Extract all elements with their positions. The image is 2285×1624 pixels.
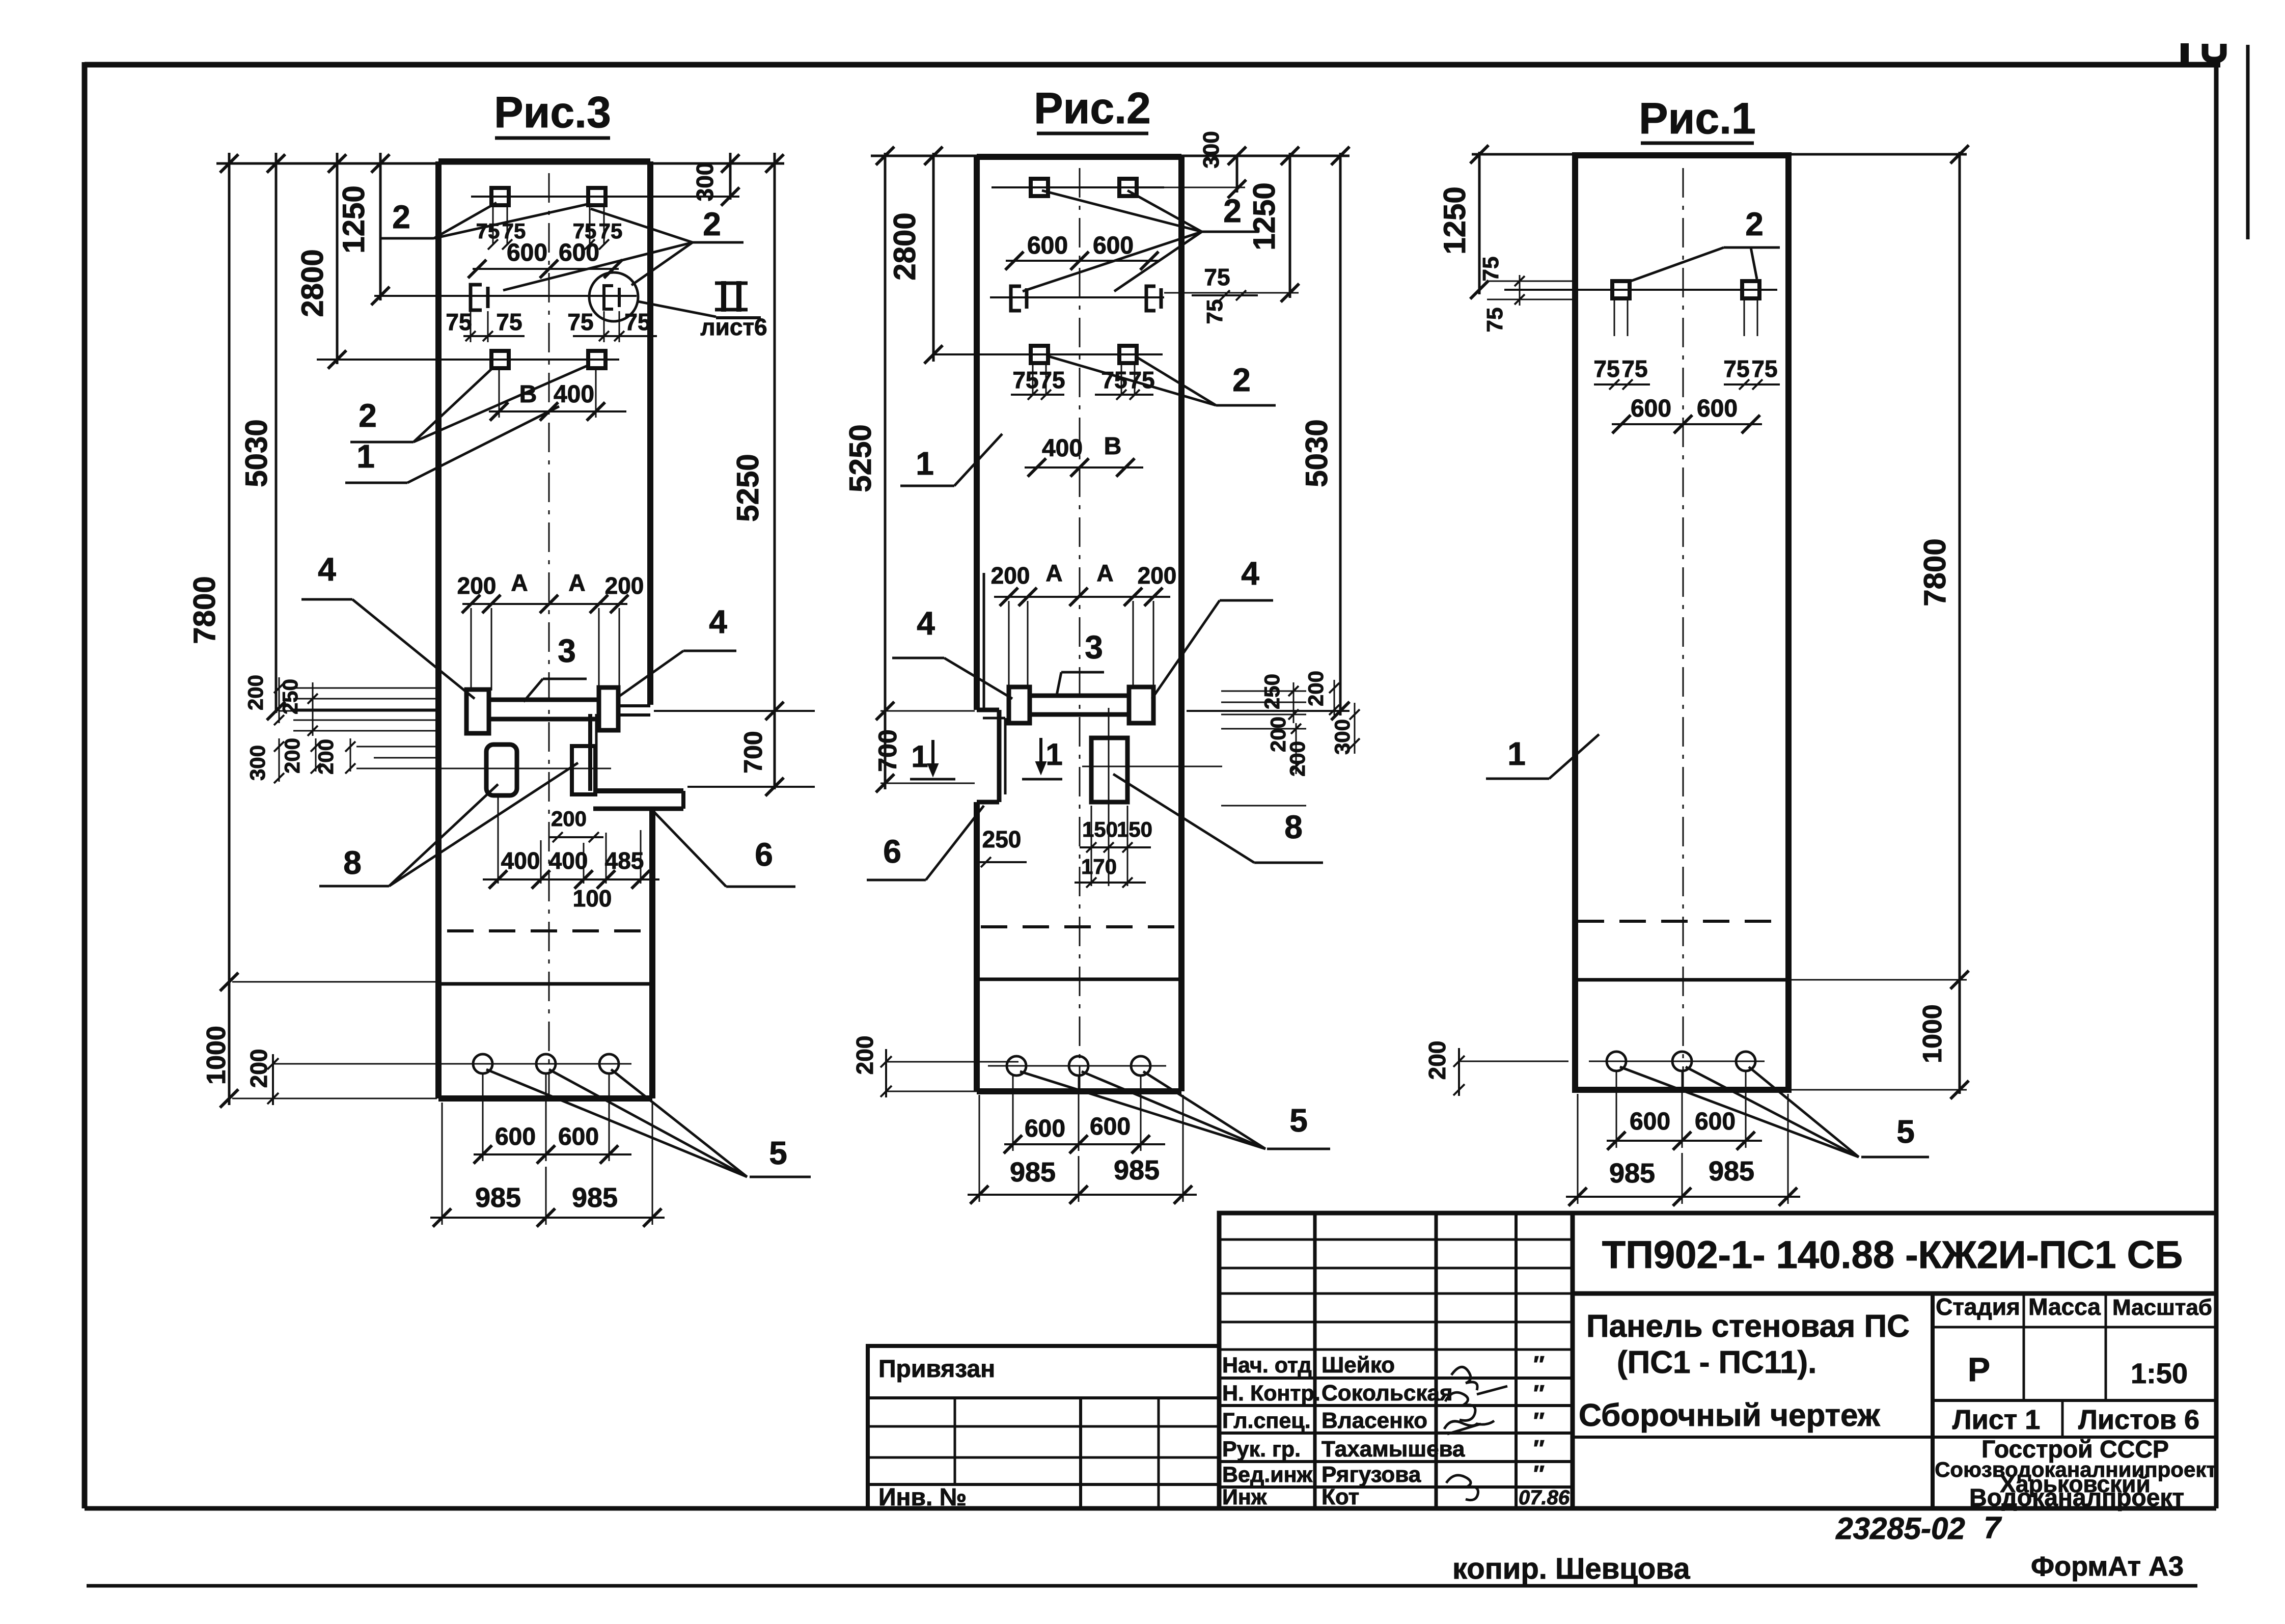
svg-text:Панель стеновая ПС: Панель стеновая ПС bbox=[1586, 1309, 1910, 1344]
svg-text:300: 300 bbox=[1199, 131, 1224, 168]
svg-text:300: 300 bbox=[245, 745, 269, 781]
fig2 crossbar left block bbox=[1009, 687, 1030, 723]
fig3 dim line 1250 bbox=[379, 153, 382, 300]
fig1 anchor row line bbox=[1504, 289, 1777, 291]
fig2 section mark 1 right bbox=[1039, 738, 1042, 762]
svg-text:600: 600 bbox=[1695, 1108, 1736, 1135]
fig1 dim line 1250 left bbox=[1478, 152, 1481, 294]
svg-text:2: 2 bbox=[1223, 192, 1242, 229]
svg-text:75: 75 bbox=[496, 309, 522, 335]
fig3 anchor row1 right loop bbox=[588, 188, 605, 205]
svg-text:Н. Контр.: Н. Контр. bbox=[1222, 1381, 1320, 1406]
fig2 dim line 1250 right bbox=[1289, 153, 1291, 298]
svg-text:6: 6 bbox=[883, 833, 901, 870]
fig3 bottom holes bbox=[473, 1054, 492, 1074]
fig3 crossbar bar bbox=[489, 698, 599, 702]
fig1 anchor stems bbox=[1614, 300, 1615, 336]
svg-text:985: 985 bbox=[475, 1182, 521, 1213]
svg-text:485: 485 bbox=[605, 847, 644, 874]
svg-text:7800: 7800 bbox=[1918, 538, 1952, 606]
fig2 row3 stems bbox=[1032, 364, 1034, 395]
svg-text:600: 600 bbox=[558, 1123, 599, 1150]
fig1 extension lines right bbox=[1791, 979, 1967, 981]
fig2 anchor row3 line bbox=[932, 353, 1163, 355]
svg-text:Привязан: Привязан bbox=[878, 1356, 995, 1383]
svg-text:5: 5 bbox=[1896, 1113, 1915, 1150]
svg-text:5250: 5250 bbox=[843, 424, 877, 492]
svg-text:Гл.спец.: Гл.спец. bbox=[1222, 1409, 1311, 1433]
svg-text:600: 600 bbox=[1027, 232, 1068, 259]
fig2 left notch bbox=[983, 573, 985, 710]
fig3 detail circle II bbox=[589, 272, 638, 321]
fig3 extension line crossbar bottom bbox=[654, 710, 815, 712]
svg-text:75: 75 bbox=[1012, 367, 1038, 393]
svg-text:75: 75 bbox=[1202, 299, 1227, 324]
svg-text:″: ″ bbox=[1533, 1351, 1545, 1378]
svg-text:Листов 6: Листов 6 bbox=[2078, 1405, 2199, 1435]
svg-text:1250: 1250 bbox=[337, 185, 371, 253]
svg-text:200: 200 bbox=[605, 572, 644, 599]
fig2 anchor row3 loops bbox=[1031, 346, 1048, 363]
svg-text:Инв. №: Инв. № bbox=[878, 1484, 967, 1511]
svg-text:4: 4 bbox=[917, 605, 935, 642]
svg-text:4: 4 bbox=[1241, 555, 1259, 592]
svg-text:400: 400 bbox=[554, 381, 594, 408]
svg-text:170: 170 bbox=[1081, 855, 1117, 878]
fig2 top dimension line bbox=[871, 155, 1350, 157]
svg-text:Стадия: Стадия bbox=[1936, 1293, 2020, 1320]
svg-text:Рис.1: Рис.1 bbox=[1639, 94, 1756, 143]
svg-text:Рягузова: Рягузова bbox=[1322, 1462, 1421, 1487]
svg-text:Сокольская: Сокольская bbox=[1322, 1381, 1453, 1406]
svg-text:Вед.инж: Вед.инж bbox=[1222, 1463, 1313, 1487]
svg-text:Тахамышева: Тахамышева bbox=[1322, 1437, 1465, 1462]
svg-text:75: 75 bbox=[476, 219, 500, 243]
fig2 section divider line bbox=[979, 978, 1181, 981]
fig3 anchor row3 right loop bbox=[588, 351, 605, 368]
fig3 dim line 5250 right bbox=[774, 153, 776, 789]
svg-text:Рис.3: Рис.3 bbox=[494, 88, 611, 137]
svg-text:В: В bbox=[1104, 433, 1122, 460]
svg-text:75: 75 bbox=[599, 219, 623, 243]
svg-text:150: 150 bbox=[1082, 817, 1118, 841]
svg-text:7: 7 bbox=[1984, 1510, 2002, 1545]
title block signatures bbox=[1451, 1367, 1477, 1390]
partial page number top right bbox=[2181, 43, 2189, 62]
fig3 anchor row2 line bbox=[374, 295, 637, 297]
svg-text:Рук. гр.: Рук. гр. bbox=[1222, 1437, 1301, 1462]
svg-text:1: 1 bbox=[1045, 737, 1062, 772]
fig3 dim line 5030 bbox=[275, 153, 278, 713]
fig3 dim line 2800 bbox=[336, 153, 339, 364]
svg-text:600: 600 bbox=[1697, 395, 1738, 422]
fig2 anchor row1 loops bbox=[1031, 179, 1048, 196]
fig1 top dimension line bbox=[1472, 153, 1967, 156]
svg-text:2: 2 bbox=[703, 206, 721, 242]
fig3 insert 8 right channel bbox=[572, 746, 595, 794]
svg-text:″: ″ bbox=[1533, 1408, 1545, 1434]
fig3 crossbar left block bbox=[466, 690, 489, 733]
svg-text:Сборочный чертеж: Сборочный чертеж bbox=[1579, 1398, 1881, 1433]
svg-text:2: 2 bbox=[1745, 206, 1764, 242]
svg-text:1000: 1000 bbox=[202, 1026, 231, 1085]
svg-text:1000: 1000 bbox=[1918, 1004, 1947, 1063]
svg-text:700: 700 bbox=[739, 731, 767, 773]
fig3 anchor row3 left loop bbox=[491, 351, 509, 368]
svg-text:600: 600 bbox=[1631, 395, 1671, 422]
fig1 section divider line bbox=[1577, 978, 1788, 982]
svg-text:А: А bbox=[1096, 560, 1113, 586]
svg-text:2: 2 bbox=[359, 397, 377, 434]
svg-text:200: 200 bbox=[991, 562, 1030, 589]
title block main staff table bbox=[1219, 1213, 1573, 1508]
fig2 crossbar right block bbox=[1129, 687, 1153, 723]
svg-text:200: 200 bbox=[1285, 741, 1309, 777]
svg-text:8: 8 bbox=[1284, 809, 1303, 845]
svg-text:100: 100 bbox=[573, 885, 612, 912]
fig2 centerline bbox=[1079, 168, 1081, 1090]
svg-text:2: 2 bbox=[392, 199, 410, 235]
svg-text:200: 200 bbox=[851, 1036, 878, 1075]
outer cut line top right bbox=[2246, 45, 2250, 239]
svg-text:1250: 1250 bbox=[1438, 186, 1472, 254]
fig3 left small dim ticks bbox=[279, 677, 280, 723]
fig3 top dimension line bbox=[216, 162, 784, 165]
fig3 dim 300 right bbox=[729, 153, 732, 200]
fig1 dim line 7800 right bbox=[1959, 152, 1961, 1094]
svg-text:75: 75 bbox=[567, 309, 593, 335]
svg-text:″: ″ bbox=[1533, 1461, 1545, 1487]
svg-text:Кот: Кот bbox=[1322, 1484, 1359, 1509]
fig2 dim line 5250 left bbox=[884, 153, 887, 789]
fig3 corbel bbox=[593, 788, 683, 793]
svg-text:1: 1 bbox=[911, 739, 928, 774]
svg-text:7800: 7800 bbox=[187, 576, 222, 644]
svg-text:Масса: Масса bbox=[2028, 1293, 2101, 1320]
svg-text:75: 75 bbox=[1621, 355, 1647, 382]
svg-text:400: 400 bbox=[549, 847, 588, 874]
fig2 dim line 2800 left bbox=[932, 153, 935, 362]
fig3 extension line corbel bottom bbox=[687, 786, 815, 788]
svg-text:985: 985 bbox=[1010, 1157, 1056, 1188]
fig2 insert 8 bbox=[1091, 738, 1127, 802]
fig3 panel right recess edge bbox=[588, 714, 592, 791]
svg-text:07.86: 07.86 bbox=[1519, 1487, 1570, 1509]
fig3 bottom extension lines bbox=[232, 981, 437, 983]
fig3 centerline bbox=[548, 173, 550, 1095]
fig2 right small dim ticks bbox=[1293, 682, 1295, 723]
svg-text:985: 985 bbox=[1609, 1158, 1655, 1189]
svg-text:2: 2 bbox=[1232, 362, 1251, 398]
svg-text:3: 3 bbox=[1085, 629, 1103, 666]
svg-text:6: 6 bbox=[755, 836, 773, 873]
svg-text:Нач. отд: Нач. отд bbox=[1222, 1353, 1312, 1378]
fig3 crossbar right block bbox=[599, 687, 618, 730]
svg-text:150: 150 bbox=[1117, 817, 1152, 841]
svg-text:600: 600 bbox=[1093, 232, 1134, 259]
fig3 section divider line bbox=[441, 982, 652, 986]
svg-text:75: 75 bbox=[1204, 264, 1230, 290]
svg-text:ТП902-1- 140.88 -КЖ2И-ПС1 СБ: ТП902-1- 140.88 -КЖ2И-ПС1 СБ bbox=[1602, 1233, 2183, 1277]
svg-text:200: 200 bbox=[1304, 671, 1328, 706]
fig3 anchor row2 right channel bbox=[604, 286, 613, 309]
fig2 anchor row1 line bbox=[992, 186, 1164, 188]
svg-text:5030: 5030 bbox=[1300, 419, 1334, 487]
fig2 hidden dashed line bbox=[981, 925, 1179, 928]
svg-text:Р: Р bbox=[1968, 1351, 1990, 1388]
svg-text:5250: 5250 bbox=[731, 454, 765, 521]
fig2 right small dim lines bbox=[1221, 691, 1306, 692]
svg-text:300: 300 bbox=[692, 162, 718, 202]
sheet border frame bbox=[85, 62, 2220, 68]
svg-text:75: 75 bbox=[446, 309, 472, 335]
title block name cell bbox=[1931, 1293, 1935, 1508]
svg-text:5: 5 bbox=[769, 1135, 787, 1171]
fig2 panel outline bbox=[977, 154, 1181, 160]
svg-text:А: А bbox=[1045, 560, 1062, 586]
svg-text:1: 1 bbox=[356, 438, 375, 475]
svg-text:75: 75 bbox=[1723, 355, 1749, 382]
fig1 centerline bbox=[1683, 168, 1684, 1087]
svg-text:Лист 1: Лист 1 bbox=[1952, 1405, 2041, 1435]
svg-text:600: 600 bbox=[1025, 1115, 1065, 1142]
svg-text:200: 200 bbox=[457, 572, 497, 599]
svg-text:985: 985 bbox=[1709, 1156, 1754, 1187]
svg-text:1: 1 bbox=[1507, 735, 1526, 772]
fig1 anchor loops bbox=[1612, 281, 1630, 298]
svg-text:4: 4 bbox=[318, 551, 336, 588]
fig3 dim line 7800 bbox=[228, 153, 231, 1105]
svg-text:2800: 2800 bbox=[295, 249, 329, 317]
bottom copy line bbox=[87, 1584, 2197, 1588]
svg-text:75: 75 bbox=[1751, 355, 1777, 382]
svg-text:400: 400 bbox=[1042, 435, 1083, 462]
svg-text:75: 75 bbox=[1478, 257, 1503, 282]
svg-text:Инж: Инж bbox=[1222, 1485, 1267, 1509]
svg-text:200: 200 bbox=[243, 675, 267, 710]
svg-text:8: 8 bbox=[343, 844, 362, 881]
svg-text:Водоканалпроект: Водоканалпроект bbox=[1969, 1484, 2184, 1511]
svg-text:1:50: 1:50 bbox=[2131, 1357, 2188, 1389]
svg-text:600: 600 bbox=[1630, 1108, 1670, 1135]
svg-text:985: 985 bbox=[1114, 1155, 1160, 1186]
svg-text:75: 75 bbox=[624, 309, 650, 335]
svg-text:1250: 1250 bbox=[1247, 182, 1281, 250]
fig2 bottom holes bbox=[1007, 1056, 1026, 1076]
fig3 anchor row1 line bbox=[471, 196, 718, 198]
fig3 left small dim lines bbox=[293, 687, 437, 689]
svg-text:ФормАт А3: ФормАт А3 bbox=[2031, 1551, 2184, 1582]
fig1 panel outline bbox=[1575, 155, 1788, 1090]
svg-text:75: 75 bbox=[1039, 367, 1065, 393]
fig3 hidden dashed line bbox=[447, 929, 648, 932]
svg-text:4: 4 bbox=[709, 603, 727, 640]
fig3 section mark II bbox=[721, 281, 726, 312]
svg-text:копир. Шевцова: копир. Шевцова bbox=[1452, 1552, 1690, 1585]
svg-text:200: 200 bbox=[1138, 562, 1177, 589]
svg-text:2800: 2800 bbox=[888, 212, 922, 280]
fig3 anchor row3 line bbox=[317, 359, 619, 361]
svg-text:5030: 5030 bbox=[239, 419, 273, 487]
svg-text:200: 200 bbox=[551, 807, 587, 831]
fig3 anchor row1 left loop bbox=[491, 188, 509, 205]
fig3 insert 8 left bbox=[486, 745, 517, 795]
fig2 anchor row2 line bbox=[990, 296, 1164, 298]
fig2 anchor row2 channels bbox=[1011, 286, 1021, 311]
svg-text:″: ″ bbox=[1533, 1380, 1545, 1407]
fig3 horizontal line through inserts bbox=[356, 768, 611, 769]
svg-text:23285-02: 23285-02 bbox=[1835, 1511, 1965, 1546]
fig3 row1 anchor stems bbox=[492, 206, 494, 244]
title block stadia massa masshtab header bbox=[1933, 1292, 2216, 1295]
svg-text:Власенко: Власенко bbox=[1322, 1408, 1427, 1433]
svg-text:75: 75 bbox=[1593, 355, 1619, 382]
svg-text:Шейко: Шейко bbox=[1322, 1353, 1395, 1378]
svg-text:″: ″ bbox=[1533, 1435, 1545, 1462]
svg-text:А: А bbox=[568, 569, 585, 596]
fig3 crossbar stub bbox=[618, 704, 650, 707]
fig1 hidden dashed line bbox=[1578, 920, 1786, 923]
svg-text:600: 600 bbox=[507, 239, 547, 266]
fig2 dim 300 right bbox=[1236, 155, 1238, 192]
svg-text:А: А bbox=[511, 569, 528, 596]
svg-text:200: 200 bbox=[1424, 1041, 1450, 1080]
svg-text:600: 600 bbox=[559, 239, 599, 266]
svg-text:(ПС1 - ПС11).: (ПС1 - ПС11). bbox=[1617, 1345, 1816, 1380]
fig2 extension lines right bbox=[1164, 187, 1245, 188]
svg-text:Масштаб: Масштаб bbox=[2112, 1295, 2212, 1320]
svg-text:985: 985 bbox=[572, 1182, 618, 1213]
svg-text:250: 250 bbox=[982, 826, 1022, 852]
svg-text:75: 75 bbox=[1482, 308, 1507, 333]
svg-text:700: 700 bbox=[873, 729, 902, 772]
svg-text:3: 3 bbox=[558, 632, 576, 669]
fig3 anchor row2 left channel bbox=[471, 285, 482, 310]
svg-text:75: 75 bbox=[1101, 367, 1127, 393]
title block pr table bbox=[868, 1346, 1219, 1508]
fig2 dim line 5030 right bbox=[1339, 153, 1342, 715]
svg-text:лист6: лист6 bbox=[700, 314, 767, 340]
fig3 panel outline bbox=[435, 161, 442, 1098]
title block designation cell bbox=[1573, 1213, 2216, 1293]
svg-text:250: 250 bbox=[1260, 674, 1284, 709]
fig2 crossbar bar bbox=[1030, 694, 1129, 698]
svg-text:Рис.2: Рис.2 bbox=[1034, 84, 1151, 133]
svg-text:5: 5 bbox=[1289, 1102, 1308, 1139]
fig2 line through insert bbox=[1082, 766, 1222, 767]
svg-text:600: 600 bbox=[1090, 1113, 1131, 1140]
svg-text:1: 1 bbox=[916, 445, 934, 482]
svg-text:600: 600 bbox=[495, 1123, 536, 1150]
svg-text:300: 300 bbox=[1330, 719, 1354, 755]
fig1 bottom holes bbox=[1607, 1052, 1626, 1071]
